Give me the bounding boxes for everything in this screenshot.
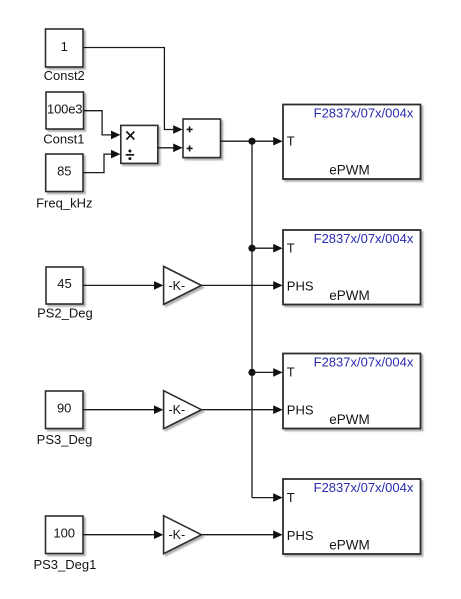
wire PS3_Deg output to gain G2 (83, 409, 155, 411)
svg-text:PHS: PHS (287, 278, 314, 293)
constant block Freq_kHz (value 85) (46, 154, 83, 192)
wire gain G1 to ePWM U2 port PHS (201, 284, 274, 286)
svg-text:ePWM: ePWM (329, 163, 370, 178)
svg-text:PHS: PHS (287, 528, 314, 543)
svg-text:T: T (287, 490, 295, 505)
svg-text:Const1: Const1 (43, 131, 84, 146)
wire PS3_Deg1 output to gain G3 (83, 534, 155, 536)
wire Freq_kHz output to divide input 2 (83, 154, 112, 173)
ePWM block U4 (283, 479, 421, 554)
arrowhead into gain G2 (154, 405, 163, 414)
arrowhead into U3 port T (273, 368, 282, 377)
svg-text:F2837x/07x/004x: F2837x/07x/004x (314, 355, 414, 370)
wire divide output to sum input 2 (158, 147, 174, 149)
gain block G2 (-K-) (164, 391, 202, 429)
wire branch node N2 to ePWM U2 port T (252, 247, 274, 249)
arrowhead into divide input 1 (111, 131, 120, 140)
arrowhead into divide input 2 (111, 150, 120, 159)
arrowhead into gain G1 (154, 281, 163, 290)
svg-text:85: 85 (57, 164, 71, 179)
node N3 junction dot (248, 369, 255, 376)
wire gain G3 to ePWM U4 port PHS (201, 534, 274, 536)
svg-text:ePWM: ePWM (329, 538, 370, 553)
svg-text:PS3_Deg: PS3_Deg (37, 432, 93, 447)
wire branch node N3 to ePWM U3 port T (252, 371, 274, 373)
wire Const2 output to sum input 1 (83, 48, 174, 130)
wire trunk vertical from node N1 down to U4 branch (251, 141, 253, 497)
constant block PS3_Deg1 (value 100) (46, 516, 84, 554)
constant block Const2 (value 1) (46, 29, 84, 67)
ePWM block U2 (283, 230, 421, 305)
svg-text:T: T (287, 365, 295, 380)
plus sign sum input 1 (187, 126, 193, 132)
svg-text:-K-: -K- (168, 403, 185, 417)
gain block G3 (-K-) (164, 516, 202, 554)
constant block PS2_Deg (value 45) (46, 267, 83, 304)
svg-text:100: 100 (53, 526, 75, 541)
svg-text:-K-: -K- (168, 528, 185, 542)
arrowhead into U4 port PHS (273, 530, 282, 539)
arrowhead into U3 port PHS (273, 405, 282, 414)
wire gain G2 to ePWM U3 port PHS (201, 409, 274, 411)
plus sign sum input 2 (187, 145, 193, 151)
sum block (183, 119, 221, 158)
svg-text:ePWM: ePWM (329, 288, 370, 303)
node N2 junction dot (248, 245, 255, 252)
svg-text:1: 1 (61, 39, 68, 54)
divide sign of divide block (126, 150, 135, 161)
wire sum output to node N1 and ePWM U1 port T (221, 140, 275, 142)
arrowhead into U4 port T (273, 493, 282, 502)
svg-text:PHS: PHS (287, 403, 314, 418)
svg-text:Freq_kHz: Freq_kHz (36, 196, 92, 211)
arrowhead into U1 port T (273, 137, 282, 146)
node N1 junction dot (248, 138, 255, 145)
divide block (multiply/divide) (121, 125, 158, 163)
wire trunk elbow to ePWM U4 port T (252, 497, 274, 499)
wire Const1 output to divide input 1 (84, 111, 112, 135)
svg-text:T: T (287, 134, 295, 149)
arrowhead into U2 port T (273, 244, 282, 253)
svg-text:PS3_Deg1: PS3_Deg1 (33, 557, 96, 572)
svg-text:Const2: Const2 (44, 68, 85, 83)
svg-text:T: T (287, 241, 295, 256)
multiply sign of divide block (126, 132, 134, 140)
gain block G1 (-K-) (164, 266, 202, 304)
constant block Const1 (value 100e3) (46, 92, 84, 129)
svg-text:90: 90 (57, 401, 71, 416)
svg-text:100e3: 100e3 (47, 101, 82, 116)
wire PS2_Deg output to gain G1 (83, 284, 155, 286)
ePWM block U1 (283, 105, 421, 180)
arrowhead into gain G3 (154, 530, 163, 539)
svg-text:F2837x/07x/004x: F2837x/07x/004x (314, 106, 414, 121)
arrowhead into U2 port PHS (273, 281, 282, 290)
ePWM block U3 (283, 354, 421, 429)
svg-text:F2837x/07x/004x: F2837x/07x/004x (314, 231, 414, 246)
arrowhead into sum input 2 (173, 144, 182, 153)
svg-text:45: 45 (57, 276, 71, 291)
svg-text:F2837x/07x/004x: F2837x/07x/004x (314, 480, 414, 495)
svg-text:ePWM: ePWM (329, 412, 370, 427)
svg-text:-K-: -K- (168, 279, 185, 293)
constant block PS3_Deg (value 90) (46, 391, 84, 429)
svg-text:PS2_Deg: PS2_Deg (37, 306, 93, 321)
arrowhead into sum input 1 (173, 125, 182, 134)
